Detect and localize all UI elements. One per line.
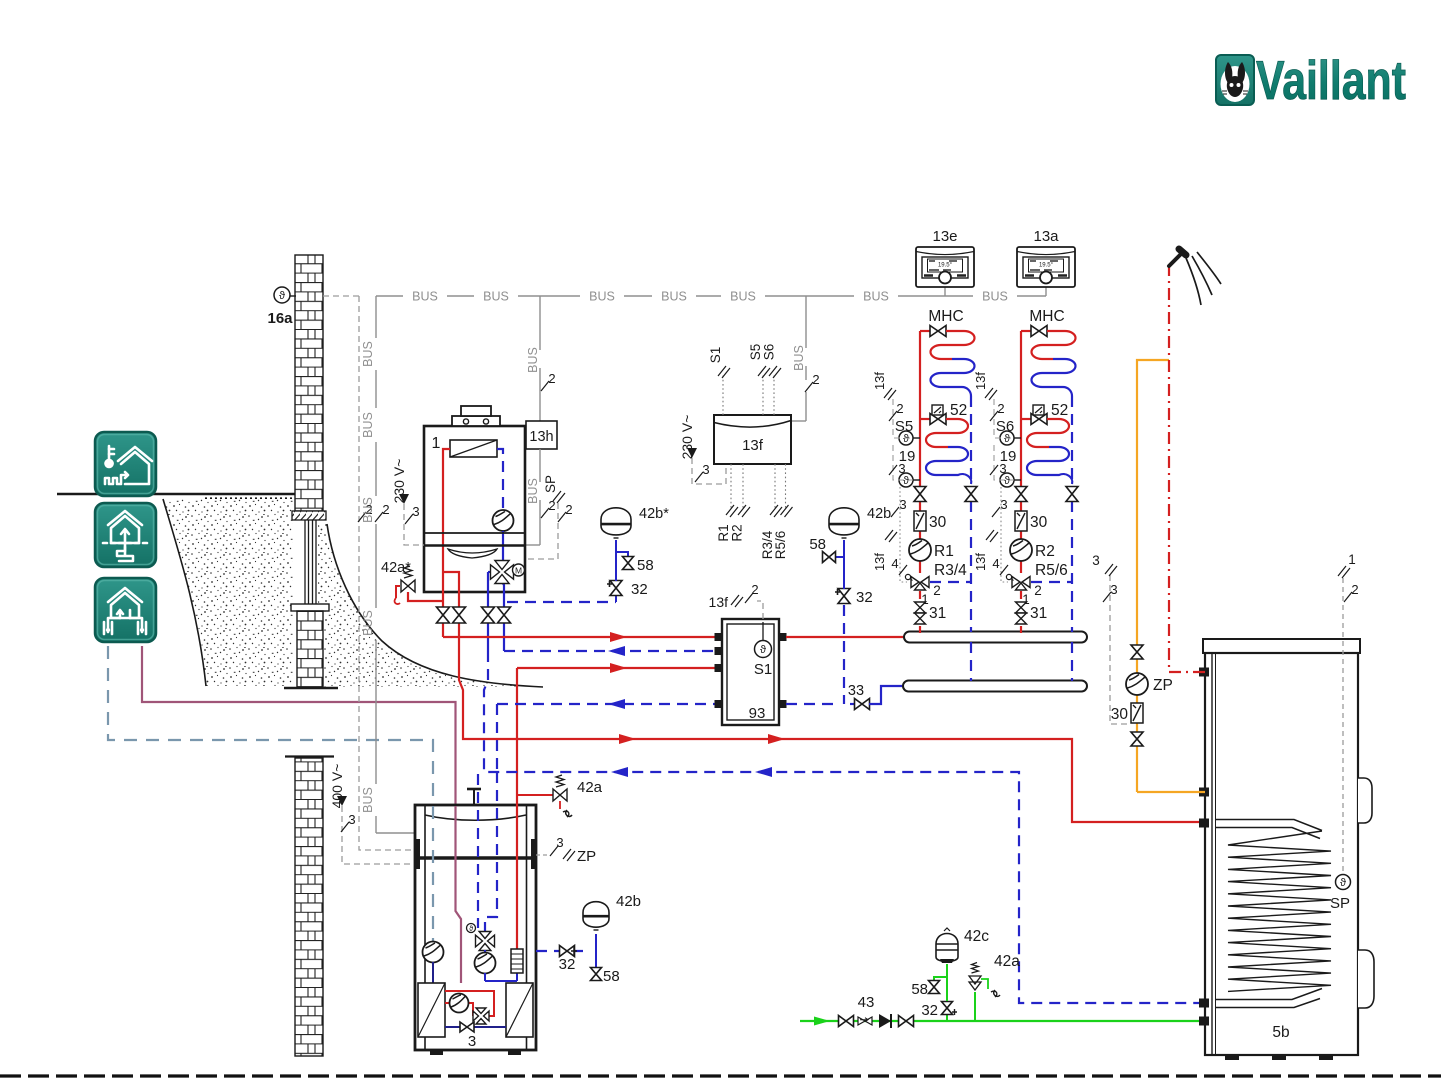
separator 93 — [722, 619, 779, 725]
box 13h — [526, 421, 557, 449]
control 13e — [944, 287, 946, 296]
svg-text:3: 3 — [898, 461, 905, 476]
MHC shutoff valve R1 — [920, 330, 930, 332]
wire return separator to boiler1 — [504, 650, 715, 652]
pump R2 — [1010, 539, 1032, 561]
boiler 1 pump — [493, 510, 514, 531]
svg-text:19.5°: 19.5° — [938, 263, 953, 269]
svg-text:2: 2 — [382, 502, 389, 517]
svg-text:S1: S1 — [754, 661, 772, 678]
mixing valve R5/6 — [1031, 581, 1072, 583]
pump R1 — [909, 539, 931, 561]
boiler 1 diverter valve — [488, 571, 492, 573]
valve 31 R1 — [915, 602, 926, 613]
wire separator to manifold return — [786, 703, 838, 705]
tank ports — [1199, 668, 1209, 677]
svg-text:3: 3 — [1092, 553, 1100, 568]
svg-text:ϑ: ϑ — [903, 433, 909, 445]
cable to ZP pump — [1110, 575, 1128, 724]
boiler 1 flow branch — [443, 572, 459, 607]
valve (circulation lower) — [1131, 732, 1143, 746]
svg-text:5b: 5b — [1272, 1024, 1289, 1041]
svg-text:32: 32 — [631, 581, 648, 598]
boiler 3 internal circuit — [445, 991, 494, 1016]
shutoff valve return R1 — [970, 501, 972, 632]
wire return separator to boiler3 — [497, 703, 715, 705]
hatched wall cap — [292, 511, 326, 520]
svg-text:BUS: BUS — [863, 290, 889, 304]
shower spray — [1186, 252, 1221, 305]
shutoff valve flow R2 — [1015, 487, 1027, 502]
tank heating coil — [1228, 831, 1331, 991]
svg-text:58: 58 — [911, 981, 928, 998]
boiler 3 casing — [415, 805, 536, 1050]
svg-text:42b: 42b — [867, 506, 891, 522]
svg-text:3: 3 — [702, 462, 709, 477]
valve 32 (cold water) — [946, 1015, 948, 1021]
svg-text:3: 3 — [1000, 497, 1007, 512]
svg-text:13f: 13f — [872, 553, 887, 571]
svg-text:BUS: BUS — [361, 412, 375, 438]
zone valve 52 R2 — [1021, 418, 1031, 420]
earth cross-section left — [163, 499, 293, 686]
svg-text:3: 3 — [412, 504, 419, 519]
svg-text:ϑ: ϑ — [1340, 877, 1346, 889]
svg-text:2: 2 — [1034, 583, 1042, 598]
check valve 30 (circulation) — [1131, 703, 1143, 723]
return drop upper R2 — [1071, 396, 1073, 487]
svg-text:42c: 42c — [964, 928, 989, 945]
wire flow to tank coil — [459, 630, 1205, 822]
shutoff valve flow R1 — [914, 487, 926, 502]
svg-text:42a*: 42a* — [381, 560, 411, 576]
shutoff valve return R2 — [1071, 501, 1073, 632]
svg-text:13f: 13f — [872, 372, 887, 390]
svg-text:52: 52 — [950, 402, 967, 419]
main BUS line — [376, 295, 403, 297]
drain valve 58 (boiler 1) — [616, 552, 628, 556]
svg-text:52: 52 — [1051, 402, 1068, 419]
boiler 3 bottom valve 3 — [445, 1026, 460, 1028]
cold water pipe — [800, 1020, 1205, 1022]
return riser lower R1 — [970, 642, 972, 681]
svg-text:BUS: BUS — [792, 345, 806, 371]
svg-text:2: 2 — [548, 371, 555, 386]
svg-text:31: 31 — [929, 605, 946, 622]
svg-text:3: 3 — [999, 461, 1006, 476]
dotted soil line — [205, 497, 293, 499]
svg-text:ϑ: ϑ — [1004, 475, 1010, 487]
svg-text:42b*: 42b* — [639, 506, 669, 522]
icon ground source heating — [95, 503, 156, 567]
return manifold — [903, 681, 1087, 692]
svg-text:31: 31 — [1030, 605, 1047, 622]
svg-text:3: 3 — [348, 812, 355, 827]
svg-text:BUS: BUS — [526, 478, 540, 504]
svg-text:MHC: MHC — [1029, 308, 1064, 325]
shower head — [1169, 254, 1181, 266]
svg-text:BUS: BUS — [589, 290, 615, 304]
svg-text:13e: 13e — [932, 228, 957, 245]
cable R2 — [742, 464, 744, 508]
check valve 30 R2 — [1015, 511, 1027, 531]
cable S6 — [773, 375, 775, 415]
page bottom dashed rule — [0, 1074, 1441, 1077]
svg-text:3: 3 — [899, 497, 906, 512]
wiring centre 13f — [714, 415, 791, 464]
wall pipe duct — [304, 520, 306, 604]
boiler 1 casing — [424, 426, 525, 592]
svg-text:33: 33 — [848, 683, 864, 699]
svg-text:32: 32 — [921, 1002, 938, 1019]
svg-text:13a: 13a — [1033, 228, 1059, 245]
safety valve 42a* — [408, 592, 443, 601]
svg-text:R5/6: R5/6 — [1035, 562, 1068, 579]
svg-text:2: 2 — [1351, 582, 1358, 597]
svg-text:MHC: MHC — [928, 308, 963, 325]
svg-text:BUS: BUS — [483, 290, 509, 304]
radiator coil upper R1 blue — [931, 359, 975, 396]
wire ZP stub (boiler 3) — [536, 854, 549, 856]
icon weather-compensated heating — [95, 432, 156, 496]
svg-text:ϑ: ϑ — [903, 475, 909, 487]
svg-text:4: 4 — [891, 556, 898, 571]
boiler 3 pump — [484, 950, 486, 953]
svg-text:BUS: BUS — [361, 787, 375, 813]
zone valve 52 R1 — [920, 418, 930, 420]
svg-text:93: 93 — [749, 705, 766, 722]
svg-text:16a: 16a — [267, 310, 293, 327]
flow manifold — [904, 632, 1087, 643]
tank coil outlet pipe — [1216, 989, 1322, 1008]
svg-text:58: 58 — [809, 536, 826, 553]
svg-text:BUS: BUS — [526, 347, 540, 373]
boiler 1 heat exchanger — [450, 440, 497, 457]
svg-text:SP: SP — [543, 475, 558, 493]
radiator coil lower R1 red — [926, 419, 968, 447]
radiator coil lower R2 red — [1027, 419, 1069, 447]
svg-text:32: 32 — [559, 956, 576, 973]
control 13a — [1045, 287, 1047, 296]
icon well water source — [95, 578, 156, 642]
sensor S1 — [762, 622, 764, 641]
ground level line — [57, 493, 296, 496]
svg-text:19.5°: 19.5° — [1039, 263, 1054, 269]
svg-text:2: 2 — [751, 582, 758, 597]
tank coil inlet pipe — [1216, 820, 1322, 839]
svg-text:30: 30 — [929, 514, 947, 531]
svg-text:4: 4 — [992, 556, 999, 571]
BUS branch to 13f — [805, 296, 807, 348]
flow riser R2 — [1020, 331, 1022, 487]
cable 13f lower R1 — [900, 487, 907, 582]
wire return from tank coil — [484, 651, 1205, 1003]
svg-text:2: 2 — [565, 502, 572, 517]
valve 43 group — [839, 1016, 854, 1027]
svg-text:13h: 13h — [529, 429, 553, 445]
boiler 3 mixing valve — [467, 924, 476, 933]
wire return into boiler 3 — [477, 774, 479, 928]
pipe ledge — [291, 604, 329, 611]
mid brick pier — [297, 611, 323, 687]
wire steel-blue dashed from well icon — [108, 646, 433, 941]
expansion vessel 42c — [946, 964, 948, 977]
drain valve 58 (boiler 3) — [595, 951, 597, 968]
boiler 1 internal flow pipe — [443, 449, 450, 601]
cable sensor 19 R2 — [994, 445, 1014, 480]
sensor 16a — [289, 295, 296, 297]
wire 16a dashed cable — [323, 295, 359, 297]
wire 13f to S1 — [757, 601, 763, 619]
tank flange lower — [1358, 950, 1374, 1008]
radiator coil upper R2 blue — [1032, 359, 1076, 396]
valve 33 — [855, 699, 870, 710]
svg-text:42b: 42b — [616, 893, 641, 910]
svg-text:58: 58 — [637, 557, 654, 574]
svg-text:2: 2 — [548, 498, 555, 513]
basement floor line — [284, 687, 338, 689]
boiler 3 heat exchanger right — [506, 983, 533, 1037]
svg-text:BUS: BUS — [982, 290, 1008, 304]
svg-text:R3/4: R3/4 — [934, 562, 967, 579]
svg-text:2: 2 — [933, 583, 941, 598]
Vaillant logo emblem — [1216, 55, 1254, 105]
svg-text:13f: 13f — [742, 437, 764, 454]
svg-text:Vaillant: Vaillant — [1256, 49, 1406, 111]
radiator coil lower R1 blue — [926, 447, 971, 484]
boiler 1 internal return pipe — [497, 449, 503, 510]
tank 5b body — [1203, 639, 1360, 653]
svg-text:R1: R1 — [934, 543, 954, 560]
svg-text:3: 3 — [468, 1033, 476, 1050]
check valve (cold water) — [879, 1014, 891, 1028]
wire flow boiler1 to separator — [443, 636, 715, 638]
BUS branch to 13h — [539, 296, 541, 350]
boiler 3 filter — [516, 795, 518, 949]
tank feet — [1225, 1055, 1239, 1060]
svg-text:R2: R2 — [730, 524, 745, 541]
svg-text:2: 2 — [896, 401, 903, 416]
svg-text:BUS: BUS — [412, 290, 438, 304]
svg-text:M: M — [515, 566, 522, 576]
svg-text:32: 32 — [856, 589, 873, 606]
svg-text:ϑ: ϑ — [469, 926, 473, 933]
sensor SP — [1342, 578, 1344, 875]
cable mark 1 (tank) — [1338, 566, 1350, 578]
svg-text:BUS: BUS — [361, 497, 375, 523]
drain valve 58 (cold water) — [934, 977, 947, 1001]
valve 32 (boiler 1) — [615, 596, 617, 602]
svg-text:13f: 13f — [709, 594, 729, 610]
boiler 1 burner lines — [424, 532, 525, 534]
svg-text:3: 3 — [556, 835, 563, 850]
wire purple inside boiler 3 — [456, 806, 462, 983]
cable R3/4 — [774, 464, 776, 508]
cable R5/6 — [785, 464, 787, 508]
mixing valve R3/4 — [930, 581, 971, 583]
cable 13f lower R2 — [1001, 487, 1008, 582]
svg-text:ϑ: ϑ — [1004, 433, 1010, 445]
wire purple from icon to floor boiler — [142, 646, 461, 983]
MHC shutoff valve R2 — [1021, 330, 1031, 332]
svg-text:2: 2 — [812, 372, 819, 387]
check valve 30 R1 — [914, 511, 926, 531]
svg-text:1: 1 — [1348, 552, 1356, 567]
svg-text:ϑ: ϑ — [760, 644, 766, 656]
valve (cold water) — [899, 1016, 914, 1027]
cable S1 — [722, 375, 724, 415]
radiator coil upper R1 red — [931, 331, 975, 359]
boiler 3 left pump — [423, 942, 444, 963]
safety valve 42a (boiler 3) — [517, 794, 553, 796]
boiler 3 heat exchanger left — [418, 983, 445, 1037]
svg-text:1: 1 — [432, 435, 441, 452]
wire steel dashed to boiler pump — [432, 806, 434, 941]
cable sensor 19 R1 — [893, 445, 913, 480]
cable R1 — [730, 464, 732, 508]
svg-text:BUS: BUS — [730, 290, 756, 304]
svg-text:43: 43 — [858, 994, 875, 1011]
basement brick wall — [285, 755, 334, 757]
return drop upper R1 — [970, 396, 972, 487]
svg-text:ϑ: ϑ — [279, 290, 285, 302]
valve 32 (boiler 3) — [536, 950, 586, 952]
svg-text:30: 30 — [1111, 706, 1129, 723]
valve 32 (manifold return) — [843, 605, 845, 704]
boiler 3 feet — [430, 1050, 443, 1055]
svg-text:42a: 42a — [994, 953, 1020, 970]
svg-text:S6: S6 — [762, 344, 777, 361]
svg-text:BUS: BUS — [361, 610, 375, 636]
wire separator to manifold flow — [786, 636, 904, 638]
boiler 3 vent — [473, 790, 475, 805]
svg-text:30: 30 — [1030, 514, 1048, 531]
svg-text:SP: SP — [1330, 895, 1350, 912]
radiator coil upper R2 red — [1032, 331, 1076, 359]
circulation pipe ZP — [1137, 360, 1169, 645]
boiler 1 flue — [452, 416, 500, 426]
cable mark 2 (tank) — [1344, 592, 1352, 602]
wire return to 42b* — [507, 601, 616, 603]
expansion vessel 42b* — [615, 540, 617, 581]
upper brick wall — [295, 255, 323, 511]
valve (circulation upper) — [1131, 645, 1143, 659]
return riser lower R2 — [1071, 642, 1073, 681]
svg-text:S1: S1 — [708, 347, 723, 364]
wire flow boiler3 to separator — [517, 667, 715, 669]
flow riser R1 — [919, 331, 921, 487]
boiler 1 service valves — [442, 601, 444, 637]
BUS 13h to boiler — [539, 449, 541, 482]
svg-text:ZP: ZP — [577, 848, 596, 865]
svg-text:13f: 13f — [973, 372, 988, 390]
svg-text:58: 58 — [603, 968, 620, 985]
valve 31 R2 — [1016, 602, 1027, 613]
svg-text:R2: R2 — [1035, 543, 1055, 560]
svg-text:2: 2 — [997, 401, 1004, 416]
cable S5 — [762, 375, 764, 415]
svg-text:BUS: BUS — [361, 341, 375, 367]
svg-text:13f: 13f — [973, 553, 988, 571]
BUS riser left to floor boiler — [375, 296, 377, 338]
svg-text:R5/6: R5/6 — [773, 531, 788, 560]
earth cross-section right — [318, 524, 543, 687]
svg-text:42a: 42a — [577, 779, 603, 796]
circulation pump ZP — [1126, 673, 1148, 695]
svg-text:ZP: ZP — [1153, 677, 1173, 694]
hot water pipe to shower — [1169, 265, 1205, 672]
drain valve 58 (manifold) — [836, 556, 844, 558]
svg-text:BUS: BUS — [661, 290, 687, 304]
radiator coil lower R2 blue — [1027, 447, 1072, 484]
expansion vessel 42b — [843, 540, 845, 589]
tank flange upper — [1358, 778, 1372, 823]
safety group 42a (cold water) — [974, 992, 976, 1021]
svg-text:3: 3 — [1110, 582, 1117, 597]
expansion vessel 42b (boiler 3) — [595, 934, 597, 951]
